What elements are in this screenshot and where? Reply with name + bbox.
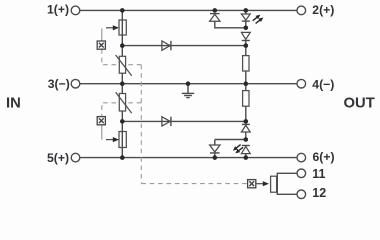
svg-text:5(+): 5(+) xyxy=(47,151,69,165)
svg-text:3(−): 3(−) xyxy=(48,77,70,91)
node rail3/ground xyxy=(186,81,191,86)
resistor R1 xyxy=(243,46,249,84)
suppressor diode V2 (bottom left branch) xyxy=(210,145,220,158)
remote signal contact (11/12) xyxy=(271,173,297,194)
LED L2 xyxy=(241,146,250,158)
terminal 1 circle xyxy=(71,6,80,15)
indicator box K1 xyxy=(97,41,105,49)
node rail1/F1 xyxy=(120,8,125,13)
svg-text:2(+): 2(+) xyxy=(312,3,334,17)
arrow at fuse F1 xyxy=(106,25,119,30)
wire rail 5(+) to 6(+) xyxy=(80,157,297,159)
junction dots xyxy=(120,8,248,160)
node connector-bottom/V4 xyxy=(244,137,249,142)
diode D1 xyxy=(162,41,171,50)
indicator box K3 xyxy=(248,180,256,188)
terminal 5 circle xyxy=(71,153,80,162)
wire dashed: box K1 down and right to bus xyxy=(102,49,142,64)
wire dashed: bus left to box K2 xyxy=(102,103,142,117)
resistor R2 xyxy=(243,84,249,122)
varistor RV2 xyxy=(116,84,132,122)
node D2/R2 xyxy=(244,119,249,124)
terminal 4 circle xyxy=(297,79,306,88)
wire dashed: bus to box K3 xyxy=(141,183,247,185)
node rail5/F2 xyxy=(120,155,125,160)
terminal 3 circle xyxy=(71,79,80,88)
LED L2 light arrows xyxy=(232,143,245,155)
node rail1/V1 xyxy=(213,8,218,13)
indicator box K2 xyxy=(97,117,105,125)
svg-text:6(+): 6(+) xyxy=(313,150,335,164)
wire rail 3(-) to 4(-) xyxy=(80,83,297,85)
node D1/V3 xyxy=(244,43,249,48)
suppressor diode V4 (below D2 line) xyxy=(241,124,250,139)
node rail1/L1 xyxy=(244,8,249,13)
fuse F2 (thermal disconnect) xyxy=(119,121,126,157)
arrow at remote contact xyxy=(256,181,269,186)
node rail3/R1R2 xyxy=(244,81,249,86)
wire connector top (from diode V1 to LED branch) xyxy=(215,21,246,28)
varistor RV1 xyxy=(116,46,132,84)
wire dashed: box K2 down to arrow2 xyxy=(101,125,103,140)
wire dashed: arrow1 to box K1 xyxy=(101,28,103,41)
terminal 12 circle xyxy=(297,190,306,199)
dashed indication net xyxy=(102,28,248,183)
node D2/RV2 xyxy=(120,119,125,124)
fuse F1 (thermal disconnect) xyxy=(119,10,126,45)
svg-text:IN: IN xyxy=(6,95,21,111)
suppressor diode V3 (below LED L1) xyxy=(241,32,250,45)
wire diode line D1 xyxy=(122,45,246,47)
suppressor diode V1 (top left branch) xyxy=(210,14,220,22)
terminal 11 circle xyxy=(297,169,306,178)
wire dashed vertical bus xyxy=(140,65,142,184)
node connector-top/L1 xyxy=(244,26,249,31)
wire diode line D2 xyxy=(122,120,246,122)
node D1/F1 xyxy=(120,43,125,48)
arrow at fuse F2 xyxy=(106,137,119,142)
terminal 2 circle xyxy=(297,6,306,15)
terminal 6 circle xyxy=(297,153,306,162)
svg-text:12: 12 xyxy=(312,186,326,200)
svg-text:11: 11 xyxy=(312,167,325,181)
LED L1 light arrows xyxy=(251,13,264,25)
LED L1 xyxy=(241,10,250,27)
diode D2 xyxy=(162,117,171,126)
node rail3/RV xyxy=(120,81,125,86)
node rail5/V2 xyxy=(213,155,218,160)
svg-text:4(−): 4(−) xyxy=(312,77,334,91)
node rail5/L2 xyxy=(244,155,249,160)
svg-text:OUT: OUT xyxy=(344,95,375,111)
svg-text:1(+): 1(+) xyxy=(47,2,69,16)
ground xyxy=(182,84,194,98)
wire connector bottom (from diode V2 to LED branch) xyxy=(215,140,246,146)
wire rail 1(+) to 2(+) xyxy=(80,9,297,11)
